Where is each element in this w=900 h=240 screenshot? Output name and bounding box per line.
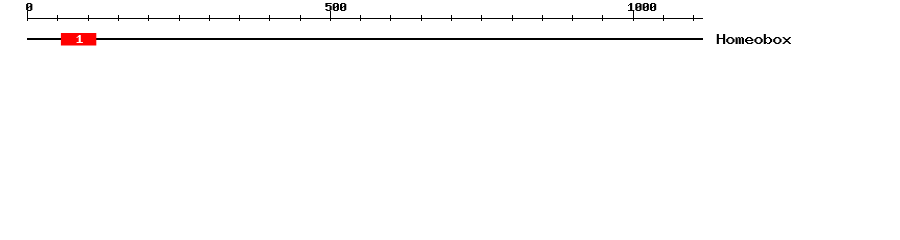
tick mark: [542, 15, 543, 21]
domain name label Homeobox: [717, 34, 791, 44]
ruler scale line: [27, 18, 703, 19]
tick mark: [572, 15, 573, 21]
tick mark: [269, 15, 270, 21]
tick mark: [693, 15, 694, 21]
tick mark: [481, 15, 482, 21]
tick mark: [239, 15, 240, 21]
tick mark: [663, 15, 664, 21]
tick mark: [57, 15, 58, 21]
tick mark: [602, 15, 603, 21]
ruler label 500: [325, 3, 346, 11]
major tick at 0: [27, 11, 28, 21]
tick mark: [209, 15, 210, 21]
ruler label 1000: [628, 3, 656, 11]
domain box Homeobox (red): [61, 33, 96, 46]
tick mark: [148, 15, 149, 21]
tick mark: [88, 15, 89, 21]
ruler label 0: [26, 3, 32, 11]
tick mark: [300, 15, 301, 21]
tick mark: [451, 15, 452, 21]
tick mark: [512, 15, 513, 21]
tick mark: [118, 15, 119, 21]
protein backbone line: [27, 38, 703, 40]
tick mark: [179, 15, 180, 21]
major tick at 1000: [633, 11, 634, 21]
tick mark: [360, 15, 361, 21]
domain number label 1 (white): [77, 35, 83, 43]
tick mark: [421, 15, 422, 21]
major tick at 500: [330, 11, 331, 21]
tick mark: [390, 15, 391, 21]
